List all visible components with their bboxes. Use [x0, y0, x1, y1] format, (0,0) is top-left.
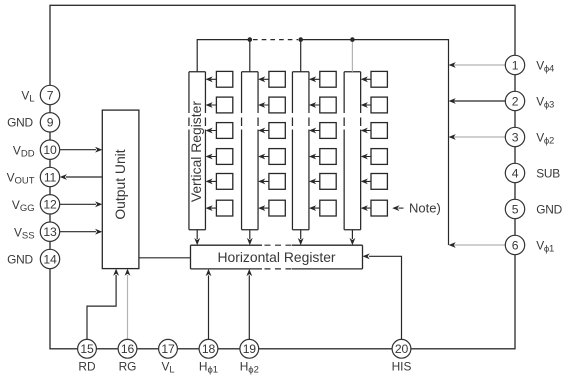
- pin 7: [40, 85, 59, 104]
- sensor cell squares column 2: [269, 71, 285, 216]
- wire pin20 HIS to horizontal register: [363, 253, 402, 339]
- svg-text:Output Unit: Output Unit: [112, 149, 128, 219]
- wire pin10 VDD to output unit: [60, 147, 103, 153]
- junction dot col2: [248, 37, 253, 42]
- svg-text:19: 19: [243, 342, 257, 356]
- pin 5: [505, 199, 524, 218]
- output unit U1 box: [102, 110, 139, 269]
- wire pin3 Vphi2: [449, 134, 506, 140]
- svg-text:VSS: VSS: [14, 225, 35, 241]
- drop wire to column 2: [249, 40, 251, 72]
- vertical register column 1: [189, 72, 206, 230]
- column 1 to horizontal register arrow: [194, 230, 200, 245]
- svg-text:RG: RG: [119, 360, 137, 374]
- svg-text:Vϕ2: Vϕ2: [536, 131, 554, 147]
- wire pin6 Vphi1: [449, 242, 506, 248]
- svg-text:VL: VL: [161, 360, 174, 375]
- vertical register column 2: [242, 72, 258, 230]
- pin 13: [40, 222, 59, 241]
- sensor cell squares column 4: [371, 71, 387, 216]
- note arrow: [392, 205, 403, 211]
- pin 17: [159, 339, 178, 358]
- svg-text:12: 12: [43, 198, 57, 212]
- wire pin13 VSS to output unit: [60, 229, 103, 235]
- svg-text:VL: VL: [21, 89, 34, 105]
- wire horizontal register to output unit: [139, 257, 191, 259]
- drop wire to column 4: [351, 40, 353, 72]
- pin 12: [40, 195, 59, 214]
- svg-text:6: 6: [512, 238, 519, 252]
- svg-text:9: 9: [47, 116, 54, 130]
- sensor cell squares column 3: [320, 71, 336, 216]
- cell-to-register transfer arrows column 2: [258, 76, 269, 211]
- svg-text:Vϕ4: Vϕ4: [536, 59, 554, 75]
- svg-text:GND: GND: [7, 252, 33, 266]
- svg-text:VOUT: VOUT: [7, 171, 35, 187]
- svg-text:GND: GND: [536, 203, 562, 217]
- svg-text:RD: RD: [78, 360, 96, 374]
- junction dot col3: [298, 37, 303, 42]
- svg-text:4: 4: [512, 166, 519, 180]
- pin 4: [505, 163, 524, 182]
- svg-text:Vϕ3: Vϕ3: [536, 95, 554, 111]
- pin 18: [199, 339, 218, 358]
- svg-text:SUB: SUB: [536, 167, 560, 181]
- svg-text:11: 11: [44, 170, 57, 184]
- pin 14: [40, 249, 59, 268]
- wire output unit to pin11 VOUT: [60, 174, 103, 180]
- pin 2: [505, 91, 524, 110]
- svg-text:1: 1: [512, 58, 519, 72]
- svg-text:Hϕ1: Hϕ1: [199, 360, 218, 376]
- svg-text:HIS: HIS: [392, 360, 412, 374]
- cell-to-register transfer arrows column 4: [361, 76, 371, 211]
- horizontal register box: [191, 245, 363, 269]
- pin 20: [392, 339, 411, 358]
- svg-text:VGG: VGG: [12, 198, 35, 214]
- svg-text:15: 15: [80, 342, 94, 356]
- svg-text:Hϕ2: Hϕ2: [240, 360, 259, 376]
- pin 19: [240, 339, 259, 358]
- drop wire to column 3: [300, 40, 302, 72]
- svg-text:16: 16: [121, 342, 135, 356]
- svg-text:Note): Note): [409, 201, 441, 216]
- pin 6: [505, 235, 524, 254]
- svg-text:18: 18: [202, 342, 216, 356]
- svg-text:3: 3: [512, 130, 519, 144]
- sensor cell squares column 1: [216, 71, 232, 216]
- top clock bus wire: [197, 40, 448, 245]
- wire pin15 RD to output unit: [87, 269, 119, 340]
- pin 1: [505, 55, 524, 74]
- wire pin19 Hphi2 to horizontal register: [246, 269, 252, 339]
- pin 3: [505, 127, 524, 146]
- package outline border: [50, 5, 515, 349]
- cell-to-register transfer arrows column 1: [205, 76, 216, 211]
- svg-text:VDD: VDD: [13, 143, 35, 159]
- svg-text:2: 2: [512, 94, 519, 108]
- svg-text:10: 10: [43, 143, 57, 157]
- svg-text:Vertical Register: Vertical Register: [188, 101, 204, 203]
- junction dot col4: [350, 37, 355, 42]
- wire pin18 Hphi1 to horizontal register: [206, 269, 212, 339]
- cell-to-register transfer arrows column 3: [309, 76, 320, 211]
- column 3 to horizontal register arrow: [298, 230, 304, 245]
- pin 16: [118, 339, 137, 358]
- svg-text:5: 5: [512, 202, 519, 216]
- pin 9: [40, 113, 59, 132]
- wire pin12 VGG to output unit: [60, 201, 103, 207]
- svg-text:GND: GND: [7, 116, 33, 130]
- svg-text:7: 7: [47, 88, 54, 102]
- svg-text:Vϕ1: Vϕ1: [536, 239, 554, 255]
- pin 10: [40, 140, 59, 159]
- column 2 to horizontal register arrow: [247, 230, 253, 245]
- wire pin2 Vphi3: [449, 98, 506, 104]
- svg-text:20: 20: [395, 342, 409, 356]
- vertical register column 4: [344, 72, 361, 230]
- wire pin1 Vphi4: [449, 62, 506, 68]
- pin 15: [78, 339, 97, 358]
- pin 11: [40, 167, 59, 186]
- column 4 to horizontal register arrow: [350, 230, 356, 245]
- svg-text:Horizontal Register: Horizontal Register: [217, 249, 335, 265]
- svg-text:13: 13: [43, 225, 57, 239]
- svg-text:14: 14: [43, 252, 57, 266]
- svg-text:17: 17: [161, 342, 175, 356]
- vertical register column 3: [292, 72, 309, 230]
- wire pin16 RG to output unit: [125, 269, 131, 340]
